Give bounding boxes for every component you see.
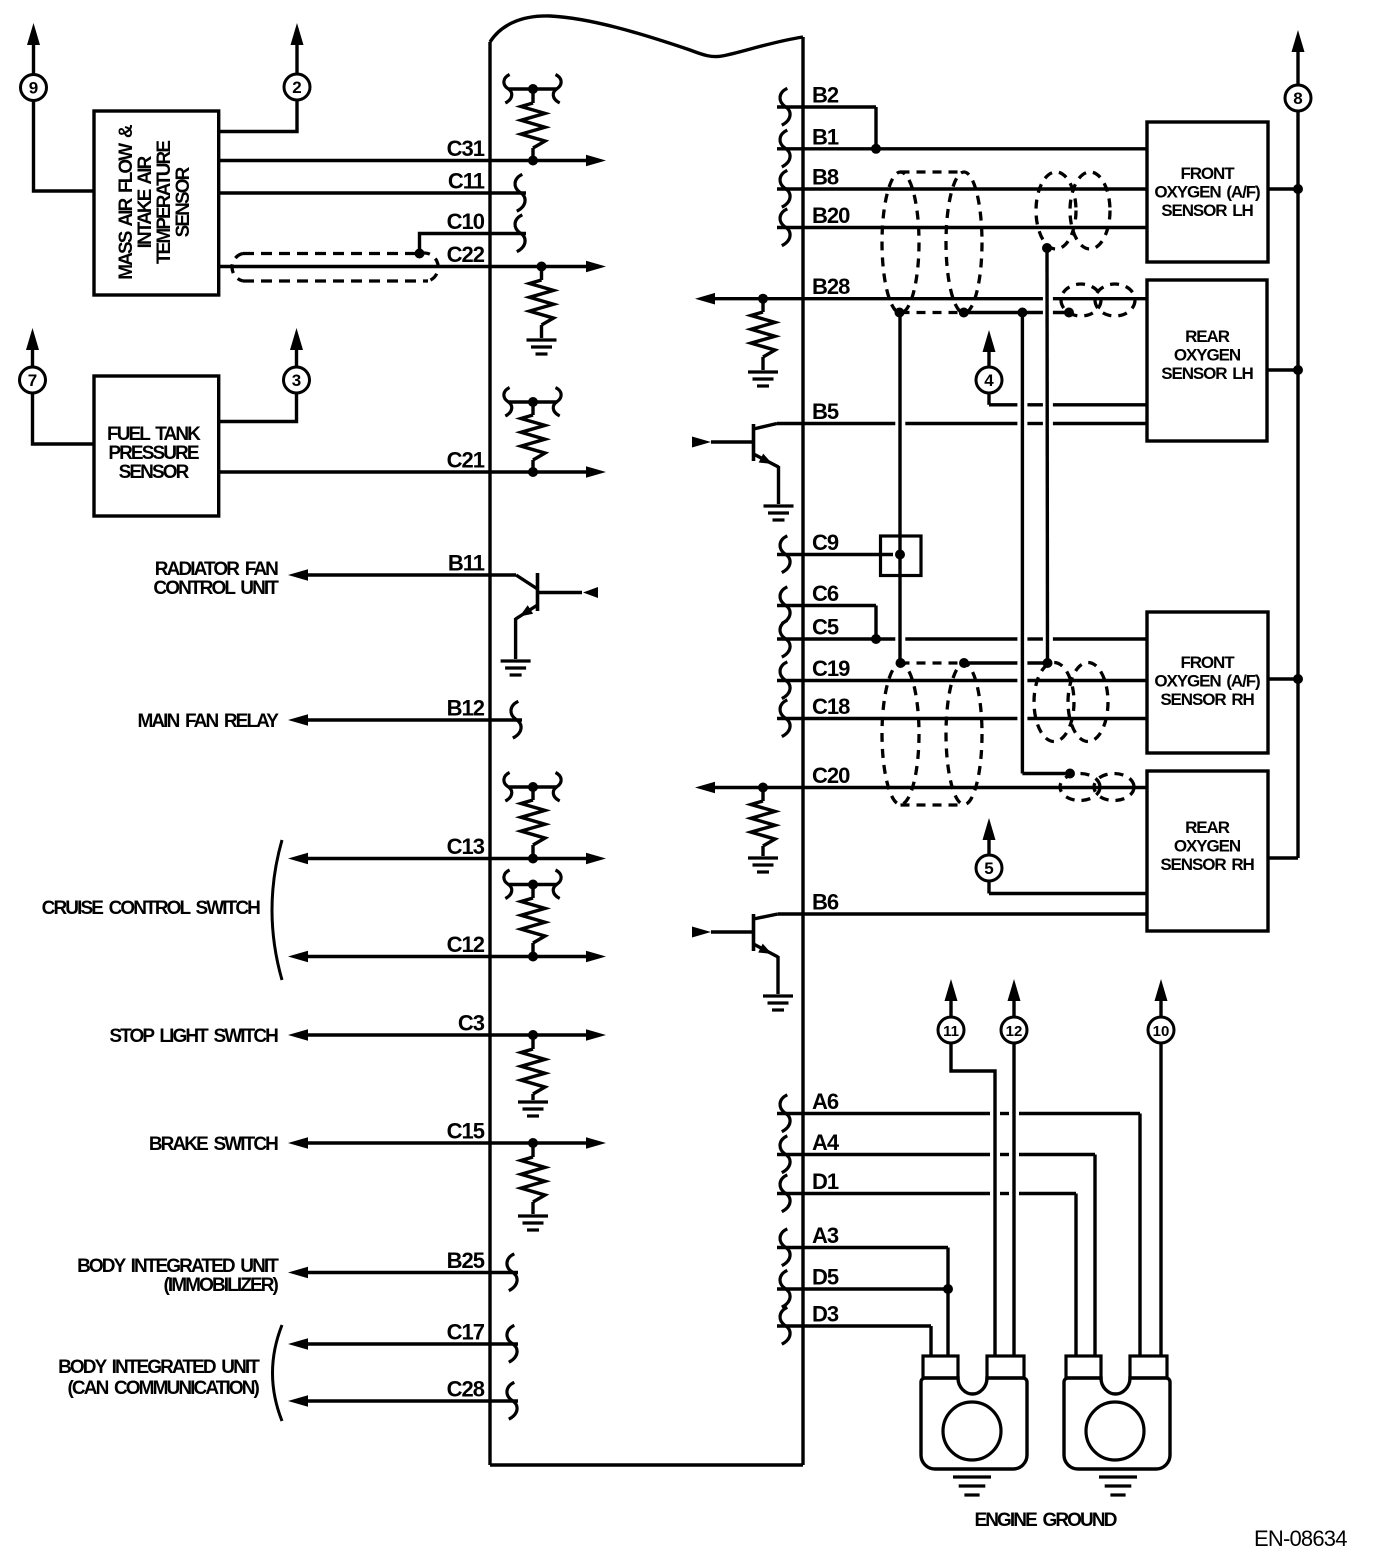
off-page connector 11 (arrow + circle) bbox=[938, 979, 964, 1043]
connector hook C18 bbox=[780, 700, 790, 737]
wire B6 (to rear oxygen sensor RH) bbox=[778, 912, 1147, 915]
label C5 bbox=[812, 615, 839, 640]
svg-text:5: 5 bbox=[984, 859, 993, 878]
wire from connector 11 to engine ground bbox=[951, 1043, 995, 1356]
wire C9 (shield drain to ECM) bbox=[777, 553, 893, 556]
pull-down resistor (B28) bbox=[751, 299, 775, 370]
connector hook D3 bbox=[780, 1307, 790, 1344]
svg-text:OXYGEN (A/F): OXYGEN (A/F) bbox=[1154, 183, 1260, 202]
ground symbol (bolt 2) bbox=[1099, 1477, 1137, 1495]
svg-text:B2: B2 bbox=[812, 83, 839, 108]
wire C22 (MAF to ECM) bbox=[219, 261, 606, 273]
svg-text:A4: A4 bbox=[812, 1130, 840, 1155]
connector hook B20 bbox=[780, 209, 790, 246]
label B28 bbox=[812, 274, 850, 299]
junction box C9 bbox=[881, 536, 922, 576]
junction dot C22 bbox=[537, 262, 547, 272]
label ENGINE GROUND bbox=[974, 1510, 1116, 1531]
connector hook C17 bbox=[507, 1325, 517, 1362]
wire A3 (to engine ground) bbox=[777, 1248, 948, 1357]
pull-up resistor rail (C21) with supply hooks bbox=[504, 388, 561, 416]
wire C12 (cruise control switch) bbox=[288, 951, 606, 963]
svg-text:C17: C17 bbox=[447, 1320, 485, 1345]
label C21 bbox=[447, 448, 485, 473]
svg-text:C31: C31 bbox=[447, 136, 485, 161]
connector hook C10 bbox=[515, 215, 525, 252]
engine ground bolt 1 bbox=[921, 1356, 1027, 1469]
svg-text:FRONT: FRONT bbox=[1180, 653, 1235, 672]
wire C21 (fuel tank sensor to ECM) bbox=[219, 466, 606, 478]
pull-up resistor (C12) bbox=[521, 885, 545, 957]
label C13 bbox=[447, 834, 485, 859]
wire C18 (to front oxygen sensor RH) bbox=[777, 717, 1147, 720]
svg-text:(CAN COMMUNICATION): (CAN COMMUNICATION) bbox=[68, 1378, 260, 1399]
wire B28 (to rear oxygen sensor LH) bbox=[695, 293, 1147, 305]
fuel tank pressure sensor box bbox=[94, 376, 219, 516]
pull-up resistor rail (C13) with supply hooks bbox=[504, 773, 561, 802]
vertical shield link V1 (LH shield to C9 and RH shield) bbox=[898, 313, 901, 664]
shield bottom dashed link (B8/B20) bbox=[901, 311, 965, 314]
junction dot C13 bbox=[528, 854, 538, 864]
svg-text:SENSOR: SENSOR bbox=[173, 166, 194, 237]
label B12 bbox=[447, 696, 485, 721]
wire C11 (MAF to ECM) bbox=[219, 191, 526, 194]
CAN communication brace bbox=[273, 1325, 283, 1421]
label B5 bbox=[812, 399, 839, 424]
connector hook C11 bbox=[515, 174, 525, 211]
wire B11 (to radiator fan control unit) bbox=[288, 569, 516, 581]
cruise control switch brace bbox=[272, 840, 282, 980]
junction dot shield C19 left bbox=[896, 658, 906, 668]
wire D5 bbox=[777, 1287, 948, 1290]
svg-text:OXYGEN (A/F): OXYGEN (A/F) bbox=[1154, 672, 1260, 691]
svg-text:A3: A3 bbox=[812, 1223, 839, 1248]
pull-up resistor (C21) bbox=[521, 402, 545, 472]
connector hook D5 bbox=[780, 1270, 790, 1307]
shield outline (C19/C18 twisted pair, left loop) bbox=[882, 664, 919, 805]
label C10 bbox=[447, 209, 485, 234]
svg-text:RADIATOR FAN: RADIATOR FAN bbox=[155, 559, 278, 580]
wire C5 (to front oxygen sensor RH) bbox=[777, 637, 1147, 640]
label C31 bbox=[447, 136, 485, 161]
connector hook B25 bbox=[507, 1254, 517, 1291]
junction dot capsule C20 bbox=[1065, 769, 1075, 779]
off-page connector 12 (arrow + circle) bbox=[1001, 979, 1027, 1043]
shield bottom dashed link (C19/C18) bbox=[901, 803, 965, 806]
wire C31 (MAF to ECM) bbox=[219, 155, 606, 167]
wire C17 (CAN) bbox=[288, 1338, 518, 1350]
svg-text:C13: C13 bbox=[447, 834, 485, 859]
wire C19 (to front oxygen sensor RH) bbox=[777, 679, 1147, 682]
svg-text:C20: C20 bbox=[812, 763, 850, 788]
connector hook C9 bbox=[780, 536, 790, 573]
svg-text:C21: C21 bbox=[447, 448, 485, 473]
shield drain wire (B8/B20) bbox=[964, 311, 1069, 314]
junction dot shield right bbox=[959, 308, 969, 318]
wire C15 (brake switch) bbox=[288, 1137, 606, 1149]
label C11 bbox=[448, 169, 485, 194]
pull-down resistor (C15) bbox=[521, 1143, 545, 1214]
shielded-cable outline around C22 wire bbox=[232, 253, 438, 281]
mass air flow & intake air temperature sensor box bbox=[94, 111, 219, 295]
junction dot C31 bbox=[528, 156, 538, 166]
svg-text:PRESSURE: PRESSURE bbox=[108, 443, 199, 464]
wire B2 bbox=[777, 107, 876, 149]
off-page connector 3 (arrow + circle) bbox=[284, 328, 310, 393]
shield outline near connector (B28) bbox=[1061, 284, 1135, 316]
connector hook D1 bbox=[780, 1175, 790, 1212]
transistor Q2 (B5 driver) bbox=[692, 424, 779, 505]
svg-text:OXYGEN: OXYGEN bbox=[1174, 837, 1241, 856]
ground (C15 pull-down) bbox=[518, 1216, 548, 1230]
wire from MAF sensor to connector 2 bbox=[219, 100, 297, 132]
junction dot C21 bbox=[528, 467, 538, 477]
label BRAKE SWITCH bbox=[149, 1134, 278, 1155]
svg-text:TEMPERATURE: TEMPERATURE bbox=[154, 141, 175, 265]
svg-text:REAR: REAR bbox=[1185, 818, 1230, 837]
svg-text:EN-08634: EN-08634 bbox=[1254, 1526, 1347, 1551]
connector hook A4 bbox=[780, 1136, 790, 1173]
connector hook C5 bbox=[780, 620, 790, 657]
svg-text:7: 7 bbox=[28, 371, 37, 390]
wire D3 (to engine ground) bbox=[777, 1326, 931, 1356]
wire from connector 12 to engine ground bbox=[1012, 1043, 1015, 1356]
svg-text:8: 8 bbox=[1293, 89, 1302, 108]
svg-text:SENSOR RH: SENSOR RH bbox=[1160, 690, 1254, 709]
ground (C22 pull-down) bbox=[527, 340, 557, 354]
svg-text:SENSOR LH: SENSOR LH bbox=[1161, 364, 1253, 383]
junction dot C5/C6 bbox=[871, 634, 881, 644]
wire B12 (to main fan relay) bbox=[288, 714, 522, 726]
connector hook B2 bbox=[780, 88, 790, 125]
wire B1 (to front oxygen sensor LH) bbox=[777, 147, 1147, 150]
label C28 bbox=[447, 1377, 485, 1402]
front oxygen (A/F) sensor LH box bbox=[1147, 122, 1268, 262]
svg-text:B6: B6 bbox=[812, 890, 839, 915]
svg-text:C18: C18 bbox=[812, 694, 850, 719]
transistor Q3 (B6 driver) bbox=[692, 914, 778, 994]
rear oxygen sensor LH box bbox=[1147, 280, 1267, 441]
connector hook B8 bbox=[780, 170, 790, 207]
label MAIN FAN RELAY bbox=[137, 711, 279, 732]
wire A4 (to engine ground) bbox=[777, 1155, 1095, 1357]
shield outline (C19/C18 twisted pair, right loop) bbox=[946, 664, 982, 805]
svg-text:B1: B1 bbox=[812, 124, 839, 149]
off-page connector 10 (arrow + circle) bbox=[1148, 979, 1174, 1043]
junction dot drain/V2 bbox=[1017, 308, 1027, 318]
svg-text:C28: C28 bbox=[447, 1377, 485, 1402]
power rail from connector 8 bbox=[1268, 111, 1298, 858]
svg-text:OXYGEN: OXYGEN bbox=[1174, 346, 1241, 365]
junction dot C20 bbox=[758, 783, 768, 793]
label RADIATOR FAN CONTROL UNIT bbox=[153, 559, 279, 599]
junction dot C15 bbox=[528, 1138, 538, 1148]
svg-text:CRUISE CONTROL SWITCH: CRUISE CONTROL SWITCH bbox=[42, 898, 261, 919]
label D5 bbox=[812, 1265, 839, 1290]
junction dot shield left bbox=[895, 308, 905, 318]
pull-up resistor rail (C12) with supply hooks bbox=[504, 870, 561, 899]
svg-text:BODY INTEGRATED UNIT: BODY INTEGRATED UNIT bbox=[58, 1357, 260, 1378]
svg-text:MAIN FAN RELAY: MAIN FAN RELAY bbox=[137, 711, 279, 732]
label D3 bbox=[812, 1302, 839, 1327]
wire from connector 7 to fuel tank pressure sensor bbox=[33, 393, 95, 444]
wire from fuel tank sensor to connector 3 bbox=[219, 393, 297, 422]
svg-text:4: 4 bbox=[984, 371, 994, 390]
label A3 bbox=[812, 1223, 839, 1248]
label C12 bbox=[447, 932, 485, 957]
svg-text:B8: B8 bbox=[812, 165, 839, 190]
junction dot shield C19/V3 bbox=[1043, 658, 1053, 668]
label EN-08634 bbox=[1254, 1526, 1347, 1551]
svg-text:FUEL TANK: FUEL TANK bbox=[107, 424, 201, 445]
svg-text:B25: B25 bbox=[447, 1248, 485, 1273]
svg-text:SENSOR LH: SENSOR LH bbox=[1161, 201, 1253, 220]
junction dot C12 bbox=[528, 952, 538, 962]
shield outline near connector (B8/B20) bbox=[1036, 172, 1110, 249]
ground (Q2 emitter) bbox=[764, 506, 794, 520]
junction dot rail/rear LH bbox=[1293, 365, 1303, 375]
label C20 bbox=[812, 763, 850, 788]
wire B5 (to rear oxygen sensor LH) bbox=[777, 422, 1147, 425]
label C6 bbox=[812, 581, 839, 606]
svg-text:B12: B12 bbox=[447, 696, 485, 721]
connector hook C6 bbox=[780, 587, 790, 624]
label B2 bbox=[812, 83, 839, 108]
label A4 bbox=[812, 1130, 840, 1155]
label C17 bbox=[447, 1320, 485, 1345]
ground (Q3 emitter) bbox=[763, 996, 793, 1010]
wire C28 (CAN) bbox=[288, 1395, 518, 1407]
svg-text:3: 3 bbox=[292, 371, 301, 390]
label C9 bbox=[812, 530, 839, 555]
off-page connector 5 (arrow + circle) bbox=[976, 818, 1002, 881]
wire C10 (shield to ECM) bbox=[420, 234, 527, 254]
wire C20 (to rear oxygen sensor RH) bbox=[695, 782, 1147, 794]
svg-text:D3: D3 bbox=[812, 1302, 839, 1327]
off-page connector 8 (arrow + circle) bbox=[1285, 30, 1311, 111]
connector hook C28 bbox=[507, 1382, 517, 1419]
label C3 bbox=[458, 1011, 485, 1036]
svg-text:C11: C11 bbox=[448, 169, 485, 194]
svg-text:CONTROL UNIT: CONTROL UNIT bbox=[153, 578, 279, 599]
svg-text:C3: C3 bbox=[458, 1011, 485, 1036]
pull-up resistor (C31) bbox=[521, 89, 545, 161]
connector hook A6 bbox=[780, 1095, 790, 1132]
svg-text:ENGINE GROUND: ENGINE GROUND bbox=[974, 1510, 1116, 1531]
svg-text:INTAKE AIR: INTAKE AIR bbox=[135, 155, 156, 248]
wire front oxygen LH to rail bbox=[1268, 187, 1298, 190]
svg-text:B11: B11 bbox=[448, 551, 485, 576]
svg-text:D5: D5 bbox=[812, 1265, 839, 1290]
svg-text:MASS AIR FLOW &: MASS AIR FLOW & bbox=[116, 124, 137, 280]
transistor Q1 (B11 driver) bbox=[516, 573, 598, 659]
shield outline near connector (C20) bbox=[1060, 774, 1134, 801]
label B8 bbox=[812, 165, 839, 190]
off-page connector 9 (arrow + circle) bbox=[21, 23, 47, 101]
shield drain wire (C19/C18) bbox=[964, 661, 1044, 664]
label B25 bbox=[447, 1248, 485, 1273]
svg-text:SENSOR: SENSOR bbox=[119, 462, 190, 483]
svg-text:C5: C5 bbox=[812, 615, 839, 640]
wire B20 (to front oxygen sensor LH) bbox=[777, 226, 1147, 229]
off-page connector 7 (arrow + circle) bbox=[20, 328, 46, 393]
svg-text:B5: B5 bbox=[812, 399, 839, 424]
wire D1 (to engine ground) bbox=[777, 1194, 1076, 1357]
shield outline (B8/B20 twisted pair, left loop) bbox=[882, 172, 919, 313]
label C22 bbox=[447, 242, 485, 267]
label B6 bbox=[812, 890, 839, 915]
ground (B28 pull-down) bbox=[748, 372, 778, 386]
connector hook B12 bbox=[511, 701, 521, 738]
junction dot C9 bbox=[895, 550, 905, 560]
svg-text:REAR: REAR bbox=[1185, 327, 1230, 346]
junction dot D5/A3 bbox=[943, 1284, 953, 1294]
svg-text:12: 12 bbox=[1006, 1023, 1023, 1040]
wire rear oxygen LH to rail bbox=[1267, 368, 1298, 371]
label A6 bbox=[812, 1089, 839, 1114]
label C19 bbox=[812, 656, 850, 681]
vertical shield link V2 (drain to C20 capsule) bbox=[1022, 313, 1070, 774]
label STOP LIGHT SWITCH bbox=[109, 1026, 278, 1047]
junction dot drain/capsule bbox=[1064, 308, 1074, 318]
shield outline (B8/B20 twisted pair, right loop) bbox=[946, 172, 982, 313]
junction dot B28 bbox=[758, 294, 768, 304]
junction dot B1/B2 bbox=[871, 144, 881, 154]
label CRUISE CONTROL SWITCH bbox=[42, 898, 261, 919]
junction dot C10-shield bbox=[415, 249, 425, 259]
svg-text:C6: C6 bbox=[812, 581, 839, 606]
pull-down resistor (C20) bbox=[751, 788, 775, 857]
label C15 bbox=[447, 1119, 485, 1144]
wire B8 (to front oxygen sensor LH) bbox=[777, 187, 1147, 190]
ground (C20 pull-down) bbox=[748, 858, 778, 872]
svg-text:B28: B28 bbox=[812, 274, 850, 299]
connector hook C19 bbox=[780, 662, 790, 699]
junction dot shield C19 right bbox=[959, 658, 969, 668]
wire from connector 9 to MAF sensor bbox=[34, 101, 95, 192]
junction dot C3 bbox=[528, 1030, 538, 1040]
label B11 bbox=[448, 551, 485, 576]
pull-up resistor (C13) bbox=[521, 787, 545, 859]
label BODY INTEGRATED UNIT (IMMOBILIZER) bbox=[77, 1256, 279, 1296]
wire C13 (cruise control switch) bbox=[288, 853, 606, 865]
wire from connector 10 to engine ground bbox=[1159, 1043, 1162, 1356]
label BODY INTEGRATED UNIT (CAN COMMUNICATION) bbox=[58, 1357, 260, 1399]
svg-text:9: 9 bbox=[29, 79, 38, 98]
wire C3 (stop light switch) bbox=[288, 1029, 606, 1041]
svg-text:FRONT: FRONT bbox=[1180, 164, 1235, 183]
svg-text:C10: C10 bbox=[447, 209, 485, 234]
pull-up resistor rail (C31) with supply hooks bbox=[504, 75, 561, 104]
svg-text:C15: C15 bbox=[447, 1119, 485, 1144]
ground symbol (bolt 1) bbox=[953, 1477, 991, 1495]
svg-text:C9: C9 bbox=[812, 530, 839, 555]
wire B25 (to body integrated unit immobilizer) bbox=[288, 1267, 518, 1279]
junction dot rail/B8 bbox=[1293, 184, 1303, 194]
pull-down resistor (C22) bbox=[530, 267, 554, 339]
svg-text:11: 11 bbox=[943, 1023, 959, 1040]
svg-text:STOP LIGHT SWITCH: STOP LIGHT SWITCH bbox=[109, 1026, 278, 1047]
svg-text:2: 2 bbox=[292, 78, 301, 97]
label B20 bbox=[812, 203, 850, 228]
svg-text:C22: C22 bbox=[447, 242, 485, 267]
pull-down resistor (C3) bbox=[521, 1035, 545, 1100]
label C18 bbox=[812, 694, 850, 719]
wire A6 (to engine ground) bbox=[777, 1114, 1140, 1357]
wire from connector 4 to rear oxygen sensor LH bbox=[989, 393, 1147, 405]
svg-text:D1: D1 bbox=[812, 1169, 839, 1194]
engine ground bolt 2 bbox=[1064, 1356, 1170, 1469]
svg-text:(IMMOBILIZER): (IMMOBILIZER) bbox=[163, 1275, 278, 1296]
wire front oxygen RH to rail bbox=[1268, 677, 1298, 680]
svg-text:B20: B20 bbox=[812, 203, 850, 228]
svg-text:C12: C12 bbox=[447, 932, 485, 957]
svg-text:BODY INTEGRATED UNIT: BODY INTEGRATED UNIT bbox=[77, 1256, 279, 1277]
connector hook B1 bbox=[780, 130, 790, 167]
front oxygen (A/F) sensor RH box bbox=[1147, 612, 1268, 753]
wire from connector 5 to rear oxygen sensor RH bbox=[989, 881, 1147, 894]
shield top dashed link (C19/C18) bbox=[901, 661, 965, 664]
rear oxygen sensor RH box bbox=[1147, 771, 1268, 931]
label D1 bbox=[812, 1169, 839, 1194]
off-page connector 2 (arrow + circle) bbox=[284, 23, 310, 100]
svg-text:C19: C19 bbox=[812, 656, 850, 681]
svg-text:10: 10 bbox=[1153, 1023, 1170, 1040]
shield top dashed link (B8/B20) bbox=[901, 170, 965, 173]
junction dot capsule B8/B20 bbox=[1042, 243, 1052, 253]
label B1 bbox=[812, 124, 839, 149]
svg-text:BRAKE SWITCH: BRAKE SWITCH bbox=[149, 1134, 278, 1155]
ECM body outline (torn top edge) bbox=[490, 16, 803, 1465]
svg-text:SENSOR RH: SENSOR RH bbox=[1160, 855, 1254, 874]
svg-text:A6: A6 bbox=[812, 1089, 839, 1114]
shield outline near connector (C19/C18) bbox=[1034, 663, 1108, 742]
vertical shield link V3 (B8/B20 capsule to C19/C18 shield) bbox=[1045, 248, 1049, 663]
wire C6 bbox=[777, 606, 876, 640]
ground (C3 pull-down) bbox=[518, 1102, 548, 1116]
off-page connector 4 (arrow + circle) bbox=[976, 330, 1002, 393]
junction dot rail/front RH bbox=[1293, 674, 1303, 684]
ground (Q1 emitter) bbox=[501, 661, 531, 675]
connector hook A3 bbox=[780, 1229, 790, 1266]
